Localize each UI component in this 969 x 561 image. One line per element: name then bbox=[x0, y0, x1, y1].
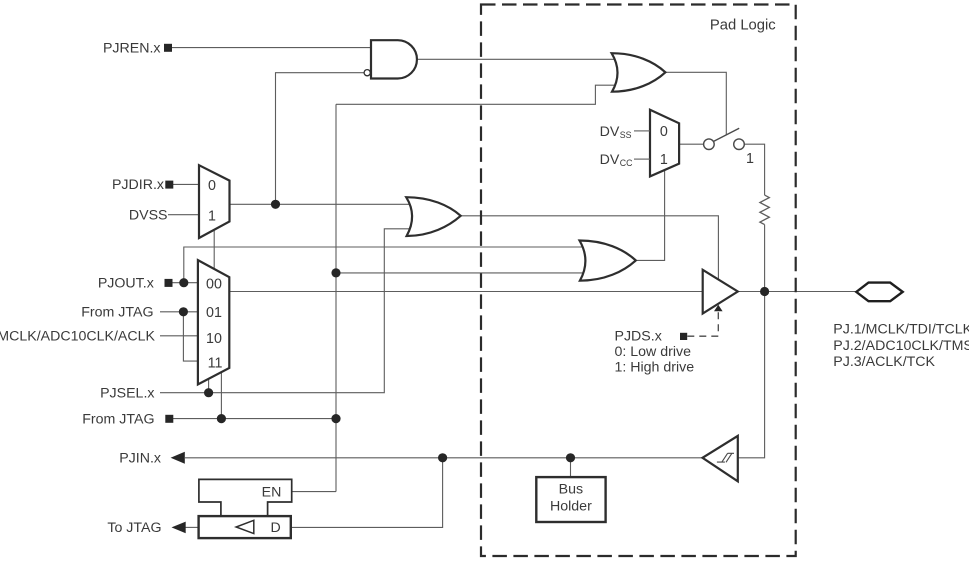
wire mux M3 output to switch bbox=[679, 143, 703, 145]
node dot on PJDIR mux output bbox=[271, 200, 280, 209]
wire DVss to mux M3 bbox=[634, 130, 650, 132]
Schmitt hysteresis symbol bbox=[717, 453, 734, 462]
terminal square PJDIR.x bbox=[165, 181, 173, 189]
svg-text:D: D bbox=[270, 520, 280, 536]
EN latch enable box bbox=[199, 479, 292, 516]
svg-text:0: 0 bbox=[660, 124, 668, 140]
svg-text:0: Low drive: 0: Low drive bbox=[615, 344, 692, 360]
svg-text:PJREN.x: PJREN.x bbox=[103, 40, 161, 56]
wire OR U6 bottom input from riser node bbox=[336, 272, 586, 274]
node dot PJIN bus holder bbox=[566, 453, 575, 462]
NAND input bubble bbox=[364, 70, 370, 76]
svg-text:1: 1 bbox=[660, 152, 668, 168]
wire From JTAG lower run bbox=[173, 418, 336, 420]
svg-text:To JTAG: To JTAG bbox=[107, 520, 161, 536]
pad hexagon bbox=[856, 283, 902, 302]
node dot PJSEL select bbox=[204, 388, 213, 397]
terminal square PJOUT.x bbox=[165, 279, 173, 287]
svg-text:Holder: Holder bbox=[550, 499, 592, 515]
PJDS arrowhead bbox=[714, 305, 723, 312]
svg-text:Bus: Bus bbox=[559, 482, 583, 498]
node dot riser to OR U6 bbox=[331, 268, 340, 277]
wire bus holder stem bbox=[570, 458, 572, 477]
wire branch from node A up to NAND inverted input bbox=[276, 73, 365, 205]
terminal square PJREN.x bbox=[164, 44, 172, 52]
mux M3 DVss/DVcc bbox=[650, 110, 679, 177]
PJDS dashed control line bbox=[687, 311, 718, 336]
svg-text:0: 0 bbox=[208, 178, 216, 194]
wire mux M2 select PJSEL riser bbox=[208, 380, 210, 393]
svg-text:11: 11 bbox=[208, 356, 223, 372]
wire DVSS to mux M1 input 1 bbox=[168, 214, 200, 216]
arrow PJIN.x bbox=[171, 452, 185, 464]
svg-text:PJDS.x: PJDS.x bbox=[615, 329, 662, 345]
svg-text:1: 1 bbox=[746, 151, 754, 167]
wire OR U5 output to driver enable bbox=[461, 216, 719, 280]
NAND gate U1 bbox=[371, 40, 417, 78]
node dot From JTAG riser junction bbox=[331, 414, 340, 423]
svg-text:PJ.3/ACLK/TCK: PJ.3/ACLK/TCK bbox=[833, 354, 935, 370]
wire OR U4 output down to switch lever bbox=[665, 72, 726, 135]
svg-text:1: High drive: 1: High drive bbox=[615, 359, 695, 375]
switch lever bbox=[714, 128, 740, 141]
wire EN input bbox=[292, 491, 336, 493]
svg-text:From JTAG: From JTAG bbox=[82, 411, 154, 427]
wire PJOUT branch up and right to OR U6 top input bbox=[184, 247, 586, 283]
wire NAND output to OR U4 top input bbox=[417, 58, 618, 60]
node dot From JTAG branch bbox=[179, 307, 188, 316]
wire PJIN.x line from Schmitt output bbox=[185, 457, 703, 459]
svg-text:PJOUT.x: PJOUT.x bbox=[98, 276, 154, 292]
svg-text:From JTAG: From JTAG bbox=[81, 305, 153, 321]
svg-text:00: 00 bbox=[206, 277, 222, 293]
Bus Holder box bbox=[536, 477, 605, 522]
wire MCLK/ADC10CLK/ACLK to mux M2 input 10 bbox=[160, 335, 198, 337]
svg-text:PJSEL.x: PJSEL.x bbox=[100, 386, 154, 402]
wire From JTAG to mux M2 input 01 bbox=[160, 311, 200, 313]
svg-text:PJDIR.x: PJDIR.x bbox=[112, 177, 164, 193]
svg-text:CC: CC bbox=[620, 158, 633, 168]
node dot PJIN to D latch bbox=[438, 453, 447, 462]
svg-text:01: 01 bbox=[206, 305, 222, 321]
mux M1 PJDIR/DVSS bbox=[199, 165, 230, 238]
svg-text:EN: EN bbox=[262, 485, 282, 501]
svg-text:MCLK/ADC10CLK/ACLK: MCLK/ADC10CLK/ACLK bbox=[0, 329, 156, 345]
wire DVcc to mux M3 bbox=[634, 158, 650, 160]
wire OR U6 output up to pull mux M3 select bbox=[636, 170, 665, 260]
D latch clock triangle bbox=[236, 520, 254, 533]
svg-text:PJIN.x: PJIN.x bbox=[119, 451, 161, 467]
output driver buffer bbox=[703, 270, 738, 314]
svg-text:PJ.2/ADC10CLK/TMS: PJ.2/ADC10CLK/TMS bbox=[833, 338, 969, 354]
terminal square From JTAG bbox=[165, 415, 173, 423]
svg-text:PJ.1/MCLK/TDI/TCLK: PJ.1/MCLK/TDI/TCLK bbox=[833, 322, 969, 338]
wire D latch output to To JTAG arrow bbox=[185, 526, 199, 528]
wire D latch input from PJIN node bbox=[291, 458, 443, 528]
wire PJREN.x to NAND input bbox=[172, 47, 374, 49]
OR gate U4 pad logic bbox=[612, 53, 666, 91]
svg-text:DV: DV bbox=[600, 152, 620, 168]
Pad Logic dashed boundary bbox=[481, 5, 796, 557]
arrow To JTAG bbox=[172, 522, 186, 534]
wire mux M2 output to output driver input bbox=[229, 291, 703, 293]
resistor R1 bbox=[760, 195, 769, 225]
OR gate U6 bbox=[580, 241, 636, 281]
switch contact circle right bbox=[734, 139, 745, 150]
svg-text:DV: DV bbox=[600, 124, 620, 140]
svg-text:10: 10 bbox=[206, 331, 222, 347]
svg-text:1: 1 bbox=[208, 208, 216, 224]
svg-text:DVSS: DVSS bbox=[129, 208, 168, 224]
OR gate U5 bbox=[406, 197, 461, 236]
node dot PJOUT branch bbox=[179, 278, 188, 287]
wire riser top to OR U4 lower input bbox=[336, 85, 618, 104]
wire From JTAG branch down to mux M2 input 11 bbox=[183, 312, 198, 361]
wire PJSEL.x run right and up to OR U5 lower input bbox=[160, 229, 412, 393]
wire mux M1 select to mux M2 bbox=[213, 231, 215, 269]
wire net from-JTAG riser (vertical x=336) bbox=[335, 104, 337, 491]
switch contact circle left bbox=[704, 139, 715, 150]
Schmitt trigger input buffer bbox=[703, 436, 738, 481]
wire switch to resistor top bbox=[744, 144, 764, 195]
terminal square PJDS.x bbox=[680, 333, 687, 340]
wire PJDIR.x to mux M1 input 0 bbox=[173, 183, 200, 185]
D latch box bbox=[199, 516, 291, 538]
wire driver output to pad bbox=[738, 291, 857, 293]
wire mux M2 select From-JTAG riser bbox=[220, 373, 222, 419]
node dot pad net bbox=[760, 287, 769, 296]
wire PJDIR mux output to OR U5 input, with branch bbox=[230, 203, 413, 205]
svg-text:SS: SS bbox=[620, 130, 632, 140]
wire resistor bottom down to pad net and Schmitt input bbox=[738, 225, 765, 458]
mux M2 output select bbox=[198, 260, 229, 384]
node dot From JTAG select bbox=[217, 414, 226, 423]
svg-text:Pad Logic: Pad Logic bbox=[710, 17, 776, 33]
wire PJOUT.x to mux M2 input 00 bbox=[172, 282, 200, 284]
